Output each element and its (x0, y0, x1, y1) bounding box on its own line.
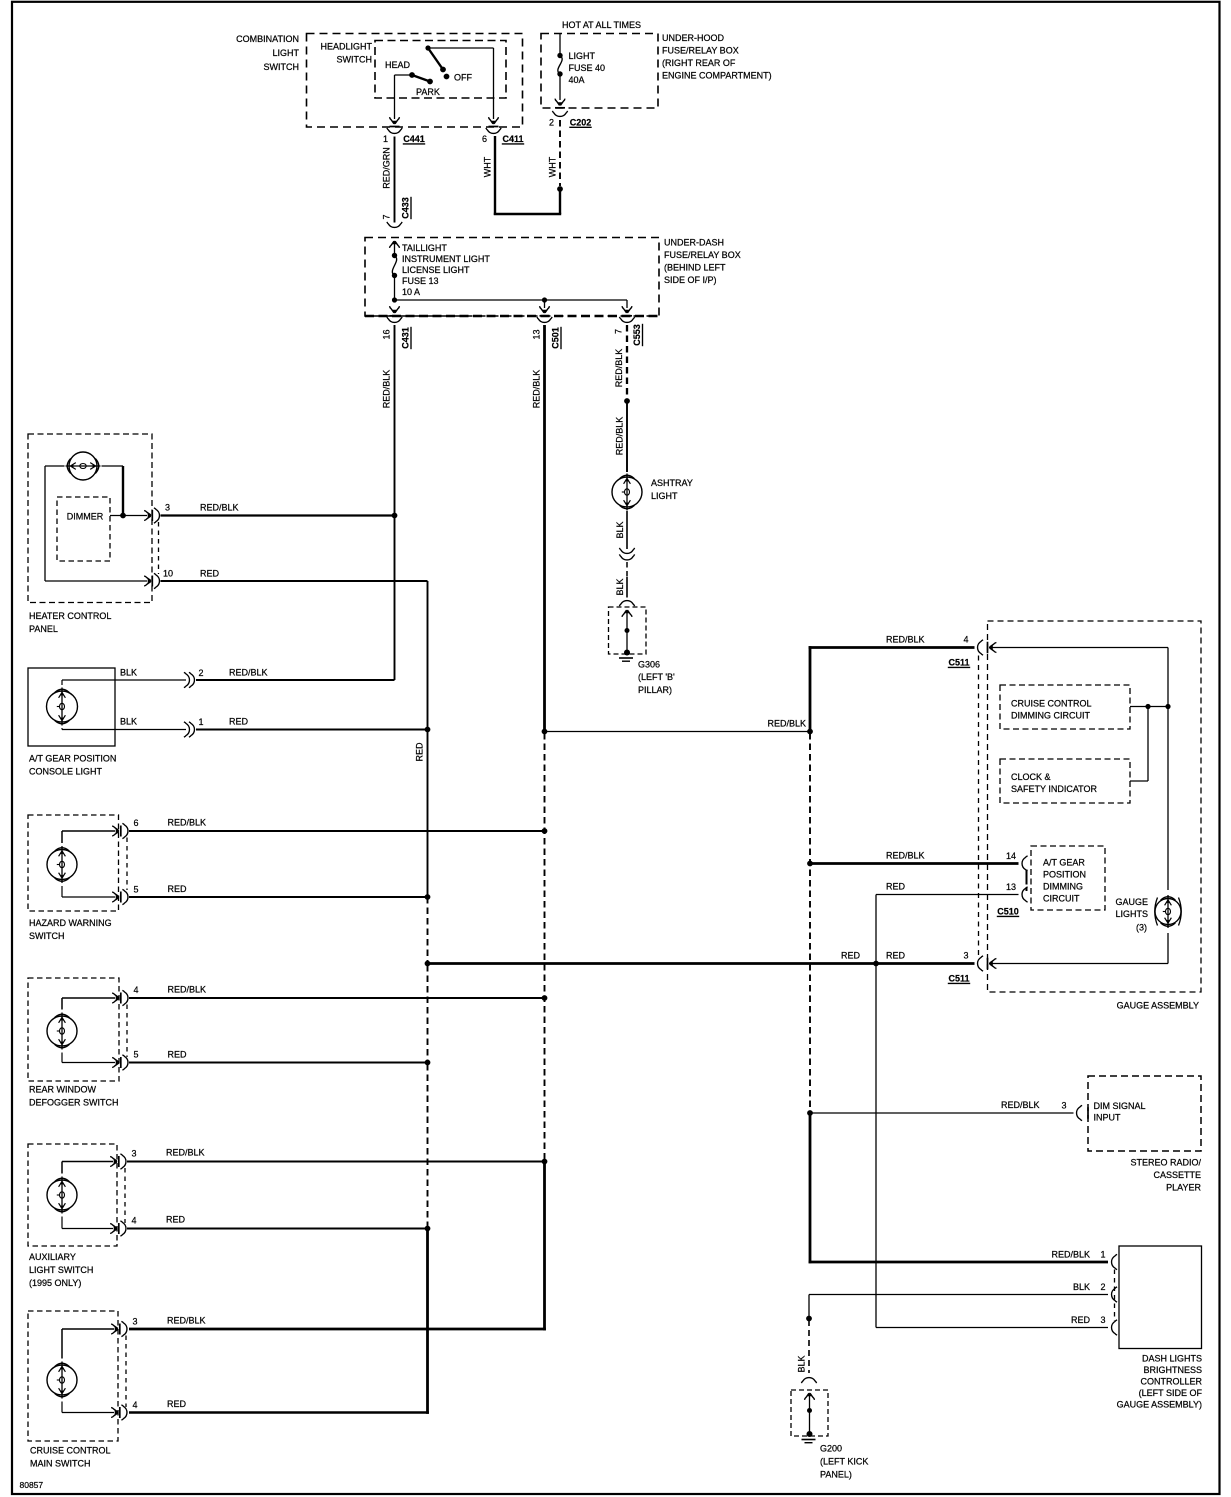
wire RED/BLK down to A/T console pin 2 (394, 516, 396, 681)
svg-text:4: 4 (132, 1216, 137, 1226)
svg-text:DIM SIGNAL: DIM SIGNAL (1094, 1101, 1146, 1111)
defogger connector body (126, 1005, 128, 1058)
defogger internal wires (61, 998, 63, 1010)
svg-text:RED: RED (1071, 1315, 1091, 1325)
svg-text:PARK: PARK (416, 87, 440, 97)
wire RED/BLK console pin 2 (196, 679, 395, 681)
svg-text:RED/BLK: RED/BLK (767, 719, 806, 729)
junction dim signal branch (807, 1110, 813, 1116)
svg-text:5: 5 (134, 1050, 139, 1060)
auxiliary internal wires (61, 1162, 63, 1174)
junction RED distribution (425, 961, 431, 967)
svg-text:UNDER-DASH: UNDER-DASH (664, 238, 724, 248)
connector to G200 (801, 1378, 816, 1384)
wire RED/BLK down to cruise pin 3 (543, 1162, 546, 1331)
wire RED/BLK to dim signal input (810, 1112, 1074, 1114)
auxiliary pin 3 terminal (110, 1157, 117, 1167)
splice dot on WHT wire (557, 186, 563, 192)
svg-text:80857: 80857 (20, 1480, 44, 1490)
wire BLK dashed to G200 (808, 1320, 810, 1373)
under-hood fuse/relay box (541, 34, 658, 109)
connector dim signal pin 3 (1077, 1105, 1083, 1120)
svg-text:HEAD: HEAD (385, 60, 411, 70)
svg-text:1: 1 (199, 717, 204, 727)
svg-text:LIGHTS: LIGHTS (1115, 909, 1148, 919)
svg-text:SWITCH: SWITCH (29, 931, 65, 941)
junction console pin 1 to RED wire (425, 727, 431, 733)
svg-text:RED: RED (886, 882, 906, 892)
wire RED/BLK from C553 (626, 325, 628, 398)
svg-text:RED/BLK: RED/BLK (886, 851, 925, 861)
heater internal wiring (45, 465, 65, 467)
headlight switch box (375, 41, 506, 99)
hazard switch bulb (47, 850, 77, 880)
svg-text:13: 13 (532, 329, 542, 339)
controller connector body (1114, 1270, 1116, 1322)
wire RED/BLK defogger pin 4 (129, 997, 545, 999)
svg-text:RED/BLK: RED/BLK (167, 1316, 206, 1326)
svg-text:3: 3 (165, 503, 170, 513)
svg-text:5: 5 (134, 885, 139, 895)
svg-text:3: 3 (132, 1149, 137, 1159)
svg-text:BLK: BLK (797, 1355, 807, 1372)
svg-text:LICENSE LIGHT: LICENSE LIGHT (402, 265, 470, 275)
cruise control dimming circuit box (1000, 685, 1130, 729)
wire RED/BLK from C431 (394, 325, 396, 516)
svg-text:(LEFT KICK: (LEFT KICK (820, 1457, 868, 1467)
heater connector body (158, 522, 160, 574)
svg-text:SWITCH: SWITCH (264, 62, 300, 72)
svg-text:G200: G200 (820, 1444, 842, 1454)
svg-text:CONTROLLER: CONTROLLER (1140, 1377, 1202, 1387)
svg-text:A/T GEAR POSITION: A/T GEAR POSITION (29, 754, 116, 764)
wire RED dashed below hazard (427, 897, 429, 962)
wire RED/BLK from C501 (543, 325, 546, 732)
svg-text:BLK: BLK (615, 578, 625, 595)
wire RED vertical (427, 581, 429, 897)
svg-text:(RIGHT REAR OF: (RIGHT REAR OF (662, 58, 736, 68)
svg-text:CRUISE CONTROL: CRUISE CONTROL (1011, 699, 1092, 709)
svg-text:RED/BLK: RED/BLK (1001, 1100, 1040, 1110)
svg-text:C411: C411 (502, 134, 523, 144)
gauge internal wire bottom (1167, 933, 1169, 964)
svg-text:2: 2 (1101, 1282, 1106, 1292)
svg-text:4: 4 (134, 985, 139, 995)
svg-text:C510: C510 (997, 907, 1019, 917)
svg-text:BLK: BLK (615, 521, 625, 538)
svg-text:SWITCH: SWITCH (337, 55, 373, 65)
arrow to C431 (544, 300, 546, 308)
svg-text:RED: RED (415, 742, 425, 762)
svg-text:4: 4 (133, 1400, 138, 1410)
svg-text:INSTRUMENT LIGHT: INSTRUMENT LIGHT (402, 254, 490, 264)
defogger switch bulb (47, 1016, 77, 1046)
auxiliary light switch box (28, 1144, 117, 1246)
wire RED/GRN C441 to C433 (394, 137, 396, 223)
svg-text:10: 10 (163, 569, 173, 579)
heater pin 10 terminal (144, 576, 151, 586)
C511 connector body (978, 656, 980, 956)
wire RED/BLK heater pin 3 (161, 514, 395, 516)
wire RED/BLK to controller pin 1 (809, 1113, 812, 1263)
svg-text:RED: RED (841, 951, 861, 961)
svg-text:RED: RED (229, 717, 249, 727)
svg-text:RED/BLK: RED/BLK (382, 370, 392, 409)
svg-text:C553: C553 (632, 324, 642, 346)
svg-text:10 A: 10 A (402, 287, 420, 297)
dimmer box (57, 497, 110, 561)
svg-text:HAZARD WARNING: HAZARD WARNING (29, 918, 112, 928)
connector C553 pin 7 (619, 317, 634, 323)
arrow to C553 (622, 306, 632, 313)
svg-text:BLK: BLK (120, 668, 137, 678)
auxiliary connector body (124, 1168, 126, 1223)
svg-text:RED/BLK: RED/BLK (532, 370, 542, 409)
hazard pin 6 terminal (112, 826, 119, 836)
svg-text:3: 3 (963, 951, 968, 961)
svg-text:HOT AT ALL TIMES: HOT AT ALL TIMES (562, 20, 641, 30)
svg-text:INPUT: INPUT (1094, 1113, 1122, 1123)
svg-text:13: 13 (1006, 882, 1016, 892)
svg-text:C433: C433 (401, 197, 411, 219)
svg-text:STEREO RADIO/: STEREO RADIO/ (1130, 1158, 1201, 1168)
svg-text:CONSOLE LIGHT: CONSOLE LIGHT (29, 767, 103, 777)
controller pin 2 connector (1112, 1287, 1118, 1302)
svg-text:AUXILIARY: AUXILIARY (29, 1252, 76, 1262)
svg-text:6: 6 (134, 818, 139, 828)
svg-text:UNDER-HOOD: UNDER-HOOD (662, 33, 724, 43)
wire RED dashed below defogger (427, 1064, 429, 1229)
svg-text:4: 4 (963, 635, 968, 645)
svg-text:PANEL: PANEL (29, 624, 58, 634)
wire BLK controller pin 2 (809, 1294, 1108, 1296)
junction RED/BLK at C501 wire (542, 729, 548, 735)
svg-text:RED: RED (166, 1215, 186, 1225)
wire RED auxiliary pin 4 (127, 1228, 428, 1230)
svg-text:WHT: WHT (483, 156, 493, 177)
bus wire inside under-dash box (395, 299, 628, 301)
svg-text:3: 3 (133, 1317, 138, 1327)
gauge assembly box (988, 621, 1202, 992)
C510 connector body (1026, 870, 1028, 885)
junction RED/BLK right riser (807, 729, 813, 735)
svg-text:C511: C511 (948, 658, 969, 668)
wire RED to gauge assembly (428, 962, 975, 965)
svg-text:PILLAR): PILLAR) (638, 685, 672, 695)
svg-text:DIMMER: DIMMER (67, 512, 104, 522)
gauge internal wire top (989, 647, 1168, 649)
svg-text:C511: C511 (948, 974, 969, 984)
wire BLK below ashtray light (626, 511, 628, 549)
fuse 40 LIGHT FUSE 40A (559, 34, 561, 54)
svg-text:RED/BLK: RED/BLK (168, 818, 207, 828)
wire RED console pin 1 (196, 729, 428, 731)
wire RED branch vertical (875, 895, 877, 964)
svg-text:CRUISE CONTROL: CRUISE CONTROL (30, 1446, 111, 1456)
A/T gear position dimming circuit box (1031, 846, 1105, 910)
svg-text:DASH LIGHTS: DASH LIGHTS (1142, 1354, 1202, 1364)
svg-text:DIMMING CIRCUIT: DIMMING CIRCUIT (1011, 711, 1090, 721)
svg-text:RED: RED (167, 1399, 187, 1409)
wire RED/BLK to C510 pin 14 (810, 862, 1019, 865)
svg-text:GAUGE: GAUGE (1115, 897, 1148, 907)
hazard connector body (126, 838, 128, 891)
svg-text:14: 14 (1006, 851, 1016, 861)
rear window defogger switch box (28, 978, 119, 1081)
ground G200 (791, 1390, 828, 1436)
hazard internal wires (61, 831, 63, 843)
hazard warning switch box (28, 815, 119, 911)
heater illumination bulb (69, 452, 97, 480)
svg-text:6: 6 (482, 134, 487, 144)
connector C411 pin 6 (486, 128, 501, 134)
svg-text:FUSE/RELAY BOX: FUSE/RELAY BOX (662, 46, 739, 56)
svg-text:3: 3 (1061, 1101, 1066, 1111)
svg-text:RED/GRN: RED/GRN (382, 147, 392, 189)
svg-text:RED: RED (886, 951, 906, 961)
cruise connector body (125, 1336, 127, 1408)
controller pin 1 connector (1112, 1254, 1118, 1269)
svg-text:TAILLIGHT: TAILLIGHT (402, 243, 447, 253)
A/T gear position console light box (28, 668, 115, 746)
fuse 13 taillight 10A (390, 241, 400, 248)
wire WHT from C411 to splice (559, 189, 561, 214)
svg-text:POSITION: POSITION (1043, 870, 1086, 880)
wire BLK to G306 (626, 562, 628, 577)
wire RED defogger pin 5 (129, 1062, 428, 1064)
svg-text:CASSETTE: CASSETTE (1153, 1170, 1201, 1180)
svg-text:RED/BLK: RED/BLK (200, 503, 239, 513)
svg-text:RED: RED (168, 1050, 188, 1060)
wire headlight switch to C411 (493, 48, 495, 119)
connector C202 pin 2 (552, 111, 567, 117)
stereo radio dim signal input box (1088, 1076, 1201, 1151)
svg-text:C501: C501 (551, 327, 561, 349)
svg-text:DEFOGGER SWITCH: DEFOGGER SWITCH (29, 1098, 119, 1108)
controller pin 3 connector (1112, 1320, 1118, 1335)
junction heater pin 3 (392, 513, 398, 519)
svg-text:HEATER CONTROL: HEATER CONTROL (29, 611, 111, 621)
cruise internal wires (61, 1329, 63, 1359)
svg-text:DIMMING: DIMMING (1043, 882, 1083, 892)
svg-text:RED: RED (200, 569, 220, 579)
defogger pin 5 terminal (112, 1058, 119, 1068)
svg-text:GAUGE ASSEMBLY: GAUGE ASSEMBLY (1117, 1001, 1199, 1011)
connector C511 pin 3 (978, 956, 984, 971)
svg-text:PLAYER: PLAYER (1166, 1183, 1201, 1193)
wire RED heater pin 10 (161, 580, 428, 582)
svg-text:OFF: OFF (454, 73, 472, 83)
wire RED/BLK to ashtray light (626, 401, 628, 472)
svg-text:A/T GEAR: A/T GEAR (1043, 858, 1085, 868)
wire RED/BLK hazard pin 6 (129, 830, 545, 832)
wire RED/BLK dashed down right side (809, 733, 811, 1111)
ground G306 (609, 607, 647, 654)
defogger pin 4 terminal (112, 993, 119, 1003)
ashtray light bulb (612, 477, 642, 507)
headlight switch contacts (428, 47, 494, 49)
svg-text:G306: G306 (638, 660, 660, 670)
wire RED/BLK across to gauge assembly (545, 731, 811, 733)
connector C510 pin 14 (1022, 856, 1028, 871)
svg-text:2: 2 (549, 117, 554, 127)
connector C501 pin 13 (537, 317, 552, 323)
console light internal wires (61, 680, 63, 685)
svg-text:RED/BLK: RED/BLK (168, 985, 207, 995)
svg-text:7: 7 (382, 214, 392, 219)
arrow to C501 (540, 306, 550, 313)
svg-text:BLK: BLK (120, 717, 137, 727)
connector C511 pin 4 (978, 640, 984, 655)
in-line connector below ashtray light (619, 548, 634, 554)
svg-text:FUSE 40: FUSE 40 (569, 63, 606, 73)
wire RED to C510 pin 13 (876, 894, 1019, 896)
wire RED/BLK auxiliary pin 3 (127, 1161, 545, 1163)
wire RED/BLK dashed below junction (544, 733, 546, 1160)
svg-text:RED/BLK: RED/BLK (229, 668, 268, 678)
heater control panel box (28, 434, 152, 603)
in-line connector pin 2 (184, 672, 190, 687)
wire RED dashed below junction (427, 965, 429, 1063)
svg-text:BLK: BLK (1073, 1282, 1090, 1292)
combination light switch box (307, 34, 523, 128)
wire RED down to cruise pin 4 (426, 1229, 429, 1414)
wire WHT from C202 (559, 120, 561, 186)
svg-text:MAIN SWITCH: MAIN SWITCH (30, 1459, 91, 1469)
wire RED/BLK riser to C511 pin 4 (809, 646, 812, 733)
svg-text:BRIGHTNESS: BRIGHTNESS (1143, 1365, 1202, 1375)
svg-text:CIRCUIT: CIRCUIT (1043, 894, 1080, 904)
dash lights brightness controller box (1119, 1246, 1202, 1349)
svg-text:(LEFT SIDE OF: (LEFT SIDE OF (1139, 1388, 1203, 1398)
svg-text:CLOCK &: CLOCK & (1011, 772, 1051, 782)
gauge lights bulb (1155, 899, 1181, 925)
connector C441 pin 1 (387, 128, 402, 134)
cruise switch bulb (47, 1365, 77, 1395)
svg-text:(LEFT 'B': (LEFT 'B' (638, 672, 675, 682)
svg-text:ENGINE COMPARTMENT): ENGINE COMPARTMENT) (662, 71, 772, 81)
svg-text:16: 16 (382, 329, 392, 339)
svg-text:PANEL): PANEL) (820, 1470, 852, 1480)
junction at A/T dimming branch (807, 861, 813, 867)
clock and safety indicator box (1000, 759, 1130, 803)
svg-text:WHT: WHT (548, 156, 558, 177)
cruise control main switch box (28, 1311, 118, 1441)
svg-text:ASHTRAY: ASHTRAY (651, 478, 693, 488)
svg-text:1: 1 (1101, 1250, 1106, 1260)
wire RED controller pin 3 (875, 964, 877, 1328)
connector C510 pin 13 (1022, 887, 1028, 902)
cruise pin 4 terminal (111, 1408, 118, 1418)
heater pin 3 terminal (144, 511, 151, 521)
svg-text:FUSE/RELAY BOX: FUSE/RELAY BOX (664, 250, 741, 260)
svg-text:HEADLIGHT: HEADLIGHT (320, 42, 372, 52)
svg-text:RED/BLK: RED/BLK (1051, 1250, 1090, 1260)
svg-text:RED/BLK: RED/BLK (615, 417, 625, 456)
console light bulb (47, 691, 78, 722)
svg-text:SIDE OF I/P): SIDE OF I/P) (664, 275, 717, 285)
svg-text:FUSE 13: FUSE 13 (402, 276, 439, 286)
svg-text:(1995 ONLY): (1995 ONLY) (29, 1278, 81, 1288)
svg-text:7: 7 (614, 329, 624, 334)
svg-text:LIGHT: LIGHT (569, 51, 596, 61)
svg-text:C431: C431 (401, 327, 411, 349)
connector C431 pin 16 (387, 317, 402, 323)
svg-text:LIGHT: LIGHT (272, 48, 299, 58)
auxiliary pin 4 terminal (110, 1224, 117, 1234)
auxiliary switch bulb (47, 1180, 77, 1210)
svg-text:RED/BLK: RED/BLK (614, 349, 624, 388)
svg-text:LIGHT: LIGHT (651, 491, 678, 501)
svg-text:REAR WINDOW: REAR WINDOW (29, 1085, 97, 1095)
svg-text:C202: C202 (570, 117, 592, 127)
clock connection wire (1130, 780, 1148, 782)
under-dash fuse/relay box (365, 238, 659, 317)
svg-text:RED/BLK: RED/BLK (166, 1148, 205, 1158)
junction RED to C510 pin 13 branch (873, 961, 879, 967)
svg-text:SAFETY INDICATOR: SAFETY INDICATOR (1011, 784, 1098, 794)
splice dot BLK wire (806, 1316, 812, 1322)
in-line connector pin 1 (184, 722, 190, 737)
svg-text:1: 1 (383, 134, 388, 144)
svg-text:40A: 40A (569, 75, 585, 85)
svg-text:(BEHIND LEFT: (BEHIND LEFT (664, 263, 726, 273)
svg-text:GAUGE ASSEMBLY): GAUGE ASSEMBLY) (1117, 1400, 1202, 1410)
svg-text:RED: RED (168, 884, 188, 894)
svg-text:C441: C441 (403, 134, 425, 144)
svg-text:LIGHT SWITCH: LIGHT SWITCH (29, 1265, 93, 1275)
wire RED hazard pin 5 (129, 896, 428, 898)
svg-text:COMBINATION: COMBINATION (236, 34, 299, 44)
svg-text:RED/BLK: RED/BLK (886, 635, 925, 645)
svg-text:3: 3 (1101, 1315, 1106, 1325)
splice dot ashtray branch (624, 398, 630, 404)
hazard pin 5 terminal (112, 892, 119, 902)
svg-text:2: 2 (199, 668, 204, 678)
cruise dimming connection wire (1130, 706, 1168, 708)
svg-text:(3): (3) (1136, 923, 1147, 933)
wire headlight switch to C441 (394, 75, 396, 119)
cruise pin 3 terminal (111, 1324, 118, 1334)
